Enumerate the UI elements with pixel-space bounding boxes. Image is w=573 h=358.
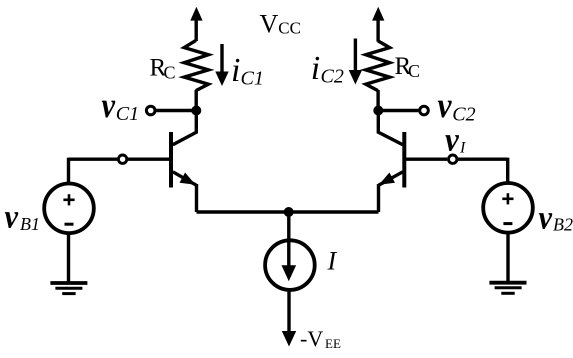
terminal vC2 (open circle) (420, 106, 429, 115)
arrow to VCC (left) (190, 7, 202, 21)
label RC (left) (150, 55, 176, 83)
svg-text:C: C (408, 61, 420, 81)
wire terminal to Q1 base (128, 157, 170, 160)
wire node to vC1 terminal (156, 109, 192, 112)
svg-text:EE: EE (325, 336, 341, 351)
wire vB1 to Q1 base (left segment) (69, 157, 118, 160)
transistor Q2 collector lead (378, 111, 403, 145)
svg-text:C2: C2 (321, 65, 344, 87)
label vC1 (102, 85, 140, 125)
resistor RC (left) (184, 40, 208, 90)
wire emitters common rail (197, 210, 379, 213)
svg-text:B1: B1 (20, 214, 40, 234)
voltage source vB1 (44, 184, 94, 234)
label iC1 (231, 52, 264, 89)
svg-text:v: v (539, 200, 553, 237)
arrow iC1 (215, 44, 228, 86)
label vB1 (5, 199, 41, 236)
node collector right (junction dot) (373, 106, 383, 116)
wire current source to VEE (287, 291, 290, 334)
wire terminal to vB2 (458, 157, 508, 160)
svg-text:I: I (459, 140, 466, 157)
transistor Q2 emitter lead (379, 172, 403, 186)
svg-text:I: I (327, 247, 338, 276)
arrow to VCC (right) (372, 7, 384, 21)
transistor Q2 base bar (402, 132, 406, 188)
transistor Q1 collector lead (173, 111, 197, 145)
voltage source vB2 (483, 183, 533, 233)
svg-text:i: i (311, 50, 320, 87)
wire node to vC2 terminal (383, 109, 419, 112)
vB2 minus sign (503, 222, 512, 225)
svg-text:C1: C1 (241, 67, 264, 89)
svg-text:C1: C1 (116, 103, 139, 125)
wire node into current source (287, 212, 290, 274)
terminal vC1 (open circle) (146, 106, 155, 115)
label vC2 (438, 85, 476, 125)
svg-text:C: C (164, 62, 176, 82)
label RC (right) (395, 53, 421, 81)
wire Q1 emitter down (195, 184, 198, 212)
wire left supply rail (194, 19, 197, 42)
transistor Q1 emitter lead (173, 172, 197, 186)
wire Q2 base to vI terminal (406, 157, 447, 160)
node collector left (junction dot) (191, 106, 201, 116)
ground (left) (50, 283, 87, 294)
svg-text:CC: CC (278, 18, 301, 37)
wire right supply rail (376, 19, 379, 42)
svg-text:i: i (231, 52, 240, 89)
wire resistor to collector node (left) (194, 90, 197, 111)
vB1 minus sign (65, 223, 74, 226)
wire vB1 up (67, 158, 70, 185)
label -VEE (300, 326, 341, 351)
label iC2 (311, 50, 344, 87)
wire vB2 up (506, 158, 509, 185)
current source I (circle) (265, 240, 315, 290)
svg-text:-V: -V (300, 326, 323, 351)
label vI (445, 122, 466, 159)
svg-text:v: v (5, 199, 19, 236)
svg-text:V: V (260, 10, 279, 39)
transistor Q1 emitter arrow (180, 173, 196, 185)
vB1 plus sign (63, 194, 74, 205)
label vB2 (539, 200, 573, 237)
svg-text:B2: B2 (553, 214, 573, 234)
wire resistor to collector node (right) (376, 90, 379, 111)
wire vB1 to ground (67, 232, 70, 284)
vB2 plus sign (502, 193, 513, 204)
arrow iC2 (349, 39, 362, 85)
ground (right) (489, 283, 526, 294)
svg-text:v: v (438, 85, 453, 125)
wire Q2 emitter down (377, 184, 380, 212)
label VCC (260, 10, 301, 39)
terminal vI (open circle) (449, 155, 457, 163)
arrow to -VEE (282, 331, 296, 347)
transistor Q1 base bar (169, 132, 173, 188)
current source arrow (282, 265, 297, 281)
terminal on base wire (left open circle) (118, 155, 126, 163)
svg-text:v: v (102, 85, 116, 125)
wire vB2 to ground (506, 231, 509, 283)
transistor Q2 emitter arrow (379, 173, 395, 185)
resistor RC (right) (366, 41, 390, 91)
svg-text:v: v (445, 122, 460, 159)
node common emitter (junction dot) (284, 207, 294, 217)
